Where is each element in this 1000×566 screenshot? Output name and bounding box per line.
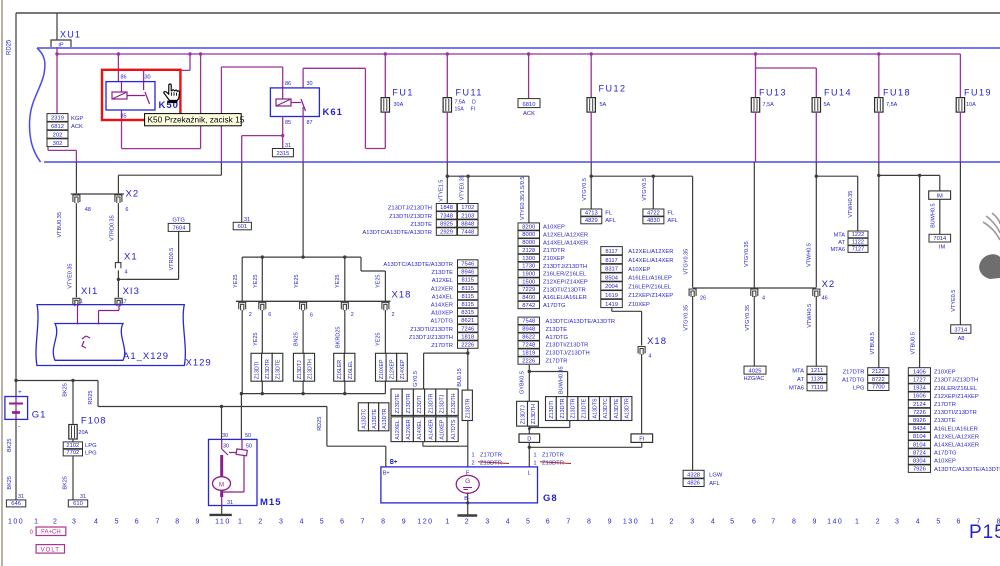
svg-text:B-: B- [464,496,470,502]
svg-text:A16LEL/A16LEP: A16LEL/A16LEP [628,276,672,282]
svg-text:1419: 1419 [605,302,618,308]
svg-text:K61: K61 [323,107,343,118]
svg-text:LPG: LPG [853,385,865,391]
svg-text:A13DTC/A13DTE/A13DTR: A13DTC/A13DTE/A13DTR [546,319,616,325]
svg-text:3: 3 [690,519,694,526]
box IM upper [939,175,941,191]
svg-text:6: 6 [310,313,313,319]
svg-text:Z13DTH: Z13DTH [308,359,314,379]
svg-text:A17DTG: A17DTG [934,451,957,457]
svg-text:85: 85 [285,120,291,126]
svg-text:BN25: BN25 [294,332,300,346]
svg-text:2226: 2226 [461,343,474,349]
svg-text:7248: 7248 [522,343,535,349]
svg-text:7702: 7702 [66,450,79,456]
svg-text:48: 48 [85,207,91,213]
svg-text:2128: 2128 [522,248,535,254]
svg-text:LGW: LGW [709,473,723,479]
svg-text:3714: 3714 [954,328,968,334]
svg-text:8722: 8722 [872,377,885,383]
svg-text:VTGY0.5: VTGY0.5 [642,178,648,201]
svg-text:RD25: RD25 [88,391,94,405]
svg-text:FI: FI [639,437,645,443]
svg-text:8946: 8946 [461,270,474,276]
svg-text:2122: 2122 [872,369,885,375]
svg-text:4: 4 [916,519,920,526]
svg-text:Z13DTJ/Z13DTH: Z13DTJ/Z13DTH [409,335,453,341]
wire: pin6 to X1 [117,203,119,262]
wire: RD25 main feed [97,381,99,407]
svg-text:VTBU0.5: VTBU0.5 [911,332,917,354]
svg-text:50: 50 [245,433,251,439]
svg-text:FU11: FU11 [456,87,483,97]
svg-text:10A: 10A [966,102,976,108]
wire: K50 pin85 down [121,110,123,149]
svg-text:30A: 30A [394,102,404,108]
svg-text:31: 31 [227,500,233,506]
tooltip K50 [145,114,242,126]
svg-text:A16LEL/A16LER: A16LEL/A16LER [543,295,587,301]
svg-text:5: 5 [730,519,734,526]
svg-text:2: 2 [258,519,262,526]
svg-text:VTRD0.35: VTRD0.35 [110,215,116,241]
svg-text:Z13DTR: Z13DTR [406,393,412,413]
box D [519,434,540,443]
svg-text:86: 86 [285,81,291,87]
M15 ground [221,506,223,515]
svg-text:A14XEL/A14XER: A14XEL/A14XER [628,258,673,264]
svg-text:1606: 1606 [913,394,926,400]
box 601 pin31 [241,162,243,222]
svg-text:A17DTG: A17DTG [543,303,566,309]
wire: bus to 6810 box [527,52,530,55]
svg-text:BK25: BK25 [63,476,69,489]
svg-text:Z10XEP: Z10XEP [379,359,385,379]
svg-text:D: D [527,437,531,443]
svg-text:8: 8 [175,519,179,526]
svg-text:X18: X18 [647,336,667,347]
svg-text:20A: 20A [78,430,88,436]
svg-text:8622: 8622 [522,335,535,341]
svg-text:8742: 8742 [522,303,535,309]
svg-text:130: 130 [623,519,639,526]
svg-text:X2: X2 [126,189,140,200]
svg-text:VTGY0.35: VTGY0.35 [684,305,690,331]
svg-text:Z13DTR: Z13DTR [428,393,434,413]
wire: main 15-feed bus magenta [57,53,960,55]
svg-text:7,5A: 7,5A [763,102,775,108]
svg-text:Z16LER: Z16LER [337,360,343,380]
svg-text:2: 2 [392,312,395,318]
svg-text:7246: 7246 [461,326,474,332]
module A1_X129 outer wavy box [36,305,185,366]
svg-text:8948: 8948 [522,327,535,333]
svg-text:GTG: GTG [172,217,185,223]
box 4025 HZG/AC [744,366,766,374]
single box Z13DTR [462,390,472,420]
svg-text:8200: 8200 [522,224,535,230]
svg-text:Z13DTR: Z13DTR [571,398,577,418]
engine boxes group C [358,403,368,431]
svg-text:LPG: LPG [85,450,97,456]
svg-text:7604: 7604 [173,226,187,232]
svg-text:30: 30 [222,433,228,439]
svg-text:Z13DTH: Z13DTH [451,393,457,413]
A1 internal wires purple [77,303,79,324]
wire: GTG branch [118,278,178,280]
svg-text:4: 4 [506,519,510,526]
svg-text:8: 8 [587,519,591,526]
svg-text:Z13DTJ/Z13DTH: Z13DTJ/Z13DTH [934,378,978,384]
svg-text:A13DTC: A13DTC [362,408,368,428]
svg-text:1727: 1727 [913,378,926,384]
svg-text:3: 3 [279,519,283,526]
svg-text:6: 6 [752,519,756,526]
A1 switch symbol [82,336,90,348]
svg-text:FA+CH: FA+CH [41,530,61,536]
ground box 610 [68,500,87,507]
svg-text:1: 1 [534,453,537,459]
svg-text:46: 46 [822,296,828,302]
svg-text:2: 2 [670,519,674,526]
svg-text:1222: 1222 [852,232,864,238]
engine boxes group B 2-row [391,389,402,415]
wires into D box [528,426,530,434]
svg-text:-: - [18,423,20,430]
svg-text:Z13DTR: Z13DTR [542,461,564,467]
svg-text:1: 1 [238,519,242,526]
svg-text:Z13DTE: Z13DTE [395,393,401,413]
wire BUWH0.5 to 7014 [939,199,941,234]
fuse FU18 [877,52,880,55]
svg-text:7229: 7229 [522,287,535,293]
svg-text:AT: AT [797,377,804,383]
box 7014 IM [929,234,951,242]
svg-text:4830: 4830 [647,218,660,224]
svg-text:1211: 1211 [811,368,823,374]
svg-text:BU0.15: BU0.15 [457,368,463,386]
table T3 [601,247,623,255]
svg-text:Z12XEP: Z12XEP [390,359,396,379]
svg-text:A13DTE: A13DTE [372,408,378,428]
svg-text:FL: FL [667,211,675,217]
svg-text:X1: X1 [124,252,138,263]
svg-text:8000: 8000 [522,232,535,238]
wire: FU18 branch [878,162,880,368]
svg-text:2226: 2226 [522,358,535,364]
svg-text:8115: 8115 [462,302,474,308]
G8 generator symbol [456,475,479,493]
svg-text:7: 7 [361,519,365,526]
svg-text:30: 30 [307,81,313,87]
svg-text:1406: 1406 [913,369,926,375]
wire: BK25 to F108 [72,381,74,424]
svg-text:Z16LER/Z16LEL: Z16LER/Z16LEL [543,272,587,278]
svg-text:A13DTC: A13DTC [603,398,609,418]
wire: X2 pin48 down [75,162,77,193]
svg-text:ACK: ACK [71,124,83,130]
wire: G1 minus to ground 646 [15,419,17,500]
svg-text:FU12: FU12 [599,84,627,94]
svg-text:4713: 4713 [585,210,598,216]
svg-text:7546: 7546 [461,262,474,268]
svg-text:Z13DTI/Z13DTR: Z13DTI/Z13DTR [410,327,453,333]
svg-text:HZG/AC: HZG/AC [744,376,765,382]
svg-text:Z17DTR: Z17DTR [934,402,956,408]
svg-text:1730: 1730 [522,264,535,270]
svg-text:Z13DTE: Z13DTE [431,270,453,276]
svg-text:Z16LEL: Z16LEL [348,361,354,380]
table 2319/6812/202/302 [47,114,68,122]
junction battery plus [14,379,17,382]
svg-text:VTBU0.5: VTBU0.5 [870,332,876,354]
svg-text:30: 30 [223,444,229,450]
svg-text:FU13: FU13 [759,87,787,97]
svg-text:Z13DTE: Z13DTE [546,327,568,333]
boxes 4713 FL / 4829 AFL [581,209,602,216]
svg-text:A12XEL/A12XER: A12XEL/A12XER [628,249,673,255]
relay K61 [270,88,319,117]
svg-text:7226: 7226 [913,410,926,416]
svg-text:VTGY0.35: VTGY0.35 [744,241,750,267]
fuse FU13 with branch [754,52,757,55]
svg-text:1848: 1848 [440,205,453,211]
wire: X2/26 to 4328 [692,296,694,470]
wire: pin48 to XI1 [75,203,77,297]
table T1 under FU11 branch [518,223,540,230]
svg-text:4: 4 [762,296,765,302]
svg-text:KGP: KGP [71,116,83,122]
svg-text:IM: IM [939,245,946,251]
svg-text:Z13DTR: Z13DTR [560,398,566,418]
table T4 twin columns [436,204,457,212]
svg-text:1819: 1819 [522,350,535,356]
svg-text:202: 202 [53,132,63,138]
svg-text:7: 7 [155,519,159,526]
engine boxes row D 8 cells [546,397,557,421]
svg-text:7926: 7926 [913,467,926,473]
svg-text:VTBU0.35: VTBU0.35 [57,212,63,237]
svg-text:Z12XEP/Z14XEP: Z12XEP/Z14XEP [543,280,588,286]
svg-text:YE25: YE25 [376,275,382,288]
wire: bus to 2319 table [56,54,58,114]
svg-text:86: 86 [121,75,127,81]
svg-text:2: 2 [876,519,880,526]
svg-text:8104: 8104 [913,442,927,448]
table T2 [518,317,540,324]
table T9 [908,368,930,376]
svg-text:8115: 8115 [462,278,474,284]
svg-text:6: 6 [546,519,550,526]
button VOLT [36,545,64,554]
svg-text:8434: 8434 [913,426,927,432]
svg-text:7014: 7014 [933,236,947,242]
svg-text:A14XER: A14XER [428,419,434,439]
svg-text:MTA: MTA [834,233,846,239]
wire: K61 87 down [302,107,304,162]
svg-text:6: 6 [135,519,139,526]
svg-text:8104: 8104 [913,434,927,440]
cursor hand icon [164,84,180,103]
wire: FU19 to 3714 A8 [959,162,961,325]
boxes 4722 FL / 4830 AFL [643,209,664,216]
svg-text:A14XEL: A14XEL [417,420,423,439]
svg-text:Z13DTI/Z13DTR: Z13DTI/Z13DTR [934,410,977,416]
svg-text:A17DTG: A17DTG [546,335,569,341]
svg-text:7700: 7700 [872,385,885,391]
svg-text:VTYE0.35: VTYE0.35 [459,175,465,200]
svg-text:8304: 8304 [913,459,927,465]
svg-text:VTGY0.35: VTGY0.35 [745,305,751,331]
svg-text:Z13DTR: Z13DTR [465,398,471,418]
svg-text:8400: 8400 [522,295,535,301]
svg-text:1139: 1139 [811,377,823,383]
svg-text:1300: 1300 [522,256,535,262]
svg-text:302: 302 [53,141,63,147]
highlight box around K50 (red) [102,70,180,120]
svg-text:1: 1 [650,519,654,526]
svg-text:RD25: RD25 [7,39,13,55]
svg-text:3: 3 [895,519,899,526]
svg-text:6810: 6810 [523,102,536,108]
svg-text:Z13DTI/Z13DTR: Z13DTI/Z13DTR [543,287,586,293]
wires: X18 drops [241,257,243,301]
svg-text:FU14: FU14 [824,87,852,97]
svg-text:A8: A8 [958,336,965,342]
svg-text:A12XER: A12XER [431,286,453,292]
svg-text:G8: G8 [543,493,558,504]
svg-text:4722: 4722 [647,210,660,216]
svg-text:7448: 7448 [461,230,474,236]
svg-text:Z13DTI/Z13DTR: Z13DTI/Z13DTR [546,343,589,349]
svg-text:+: + [18,389,22,396]
svg-text:Z10XEP: Z10XEP [934,370,956,376]
battery G1 [5,397,28,420]
svg-text:Z13DTJ/Z13DTH: Z13DTJ/Z13DTH [546,351,590,357]
svg-text:ACK: ACK [523,111,535,117]
wire: left vertical from top to G1 [15,13,17,397]
svg-text:RD25: RD25 [317,417,323,431]
svg-text:A14XEL: A14XEL [432,294,454,300]
svg-text:A10XEP: A10XEP [431,311,453,317]
svg-text:5: 5 [115,519,119,526]
svg-text:Z12XEP/Z14XEP: Z12XEP/Z14XEP [628,293,673,299]
svg-text:YE25: YE25 [335,275,341,288]
svg-text:BUWH0.35: BUWH0.35 [559,366,565,394]
G8 ground [467,493,469,515]
svg-text:A13DTR: A13DTR [382,408,388,428]
svg-text:BKRD25: BKRD25 [336,327,342,348]
svg-text:AFL: AFL [605,218,616,224]
svg-text:120: 120 [417,519,433,526]
svg-text:P15: P15 [969,522,1000,543]
svg-text:8: 8 [792,519,796,526]
svg-text:4829: 4829 [585,218,598,224]
svg-text:VTWH0.35: VTWH0.35 [848,191,854,218]
button FA+CH [36,527,66,536]
svg-text:4025: 4025 [749,368,762,374]
svg-text:VTWH0.5: VTWH0.5 [807,243,813,267]
svg-text:1818: 1818 [461,334,474,340]
wire: K50 pin30 loop [143,70,145,81]
svg-text:2: 2 [249,312,252,318]
svg-text:Z17DTR: Z17DTR [431,343,453,349]
svg-text:A17DTG: A17DTG [430,319,453,325]
svg-text:7: 7 [771,519,775,526]
svg-text:2: 2 [53,519,57,526]
svg-text:8925: 8925 [440,221,453,227]
svg-text:YE25: YE25 [294,275,300,288]
svg-text:VTGY0.5: VTGY0.5 [582,178,588,201]
wire: group B bottom join [422,442,424,447]
svg-text:2315: 2315 [276,151,289,157]
svg-text:Z13DTI: Z13DTI [549,401,555,419]
svg-text:2319: 2319 [51,116,64,122]
svg-text:4: 4 [648,354,651,360]
svg-text:A13DTE: A13DTE [614,398,620,418]
module A1 inner wavy box [53,324,124,361]
svg-text:MTA6: MTA6 [830,247,845,253]
svg-text:50: 50 [246,444,252,450]
svg-text:4826: 4826 [687,481,700,487]
wire: X2 pin6 riser / K61 86 branch [220,67,222,162]
svg-text:8315: 8315 [461,310,474,316]
svg-text:XI3: XI3 [123,286,140,297]
svg-text:G: G [465,478,470,485]
svg-text:3: 3 [72,519,76,526]
svg-text:1900: 1900 [522,271,535,277]
wire: K61 85 to ground boxes [282,117,284,149]
svg-text:5A: 5A [600,102,607,108]
svg-text:2103: 2103 [461,213,474,219]
svg-text:8724: 8724 [913,450,927,456]
svg-text:MTA6: MTA6 [789,385,804,391]
svg-text:2: 2 [465,519,469,526]
M15 internals [221,439,223,449]
svg-text:4: 4 [125,270,128,276]
svg-text:B+: B+ [383,471,390,477]
svg-text:Z16LEP/Z16LEL: Z16LEP/Z16LEL [628,284,672,290]
svg-text:1619: 1619 [605,293,618,299]
svg-text:Z10XEP: Z10XEP [628,302,650,308]
svg-text:A17DTS: A17DTS [451,419,457,439]
svg-text:Z17DTR: Z17DTR [480,453,502,459]
svg-text:AT: AT [838,240,845,246]
svg-text:140: 140 [827,519,843,526]
svg-text:BK25: BK25 [63,383,69,396]
svg-text:D: D [472,100,476,106]
svg-text:6812: 6812 [51,124,64,130]
svg-text:8115: 8115 [462,286,474,292]
svg-text:FI: FI [471,107,476,113]
svg-text:5: 5 [526,519,530,526]
wire: FU13 down to X2 pin4 [753,162,755,288]
wire: IM branch down to T9 [919,175,921,367]
svg-text:8117: 8117 [605,249,617,255]
wire: single box to G8 F [467,421,469,467]
wire: FU1 to K61 pin30 loop [384,52,387,55]
svg-text:8117: 8117 [605,258,617,264]
svg-text:Z17DTR: Z17DTR [542,453,564,459]
boxes 4328 LGW / 4826 AFL [683,470,704,478]
svg-text:610: 610 [73,501,83,507]
svg-text:VTGY0.35: VTGY0.35 [684,249,690,275]
table T5 right list [458,260,479,268]
svg-text:8621: 8621 [461,318,474,324]
K50 coil and contact [121,82,123,92]
wire: FU14 down to X2 pin46 [815,162,817,288]
svg-text:A13DTC/A13DTE/A13DTR: A13DTC/A13DTE/A13DTR [934,467,1000,473]
